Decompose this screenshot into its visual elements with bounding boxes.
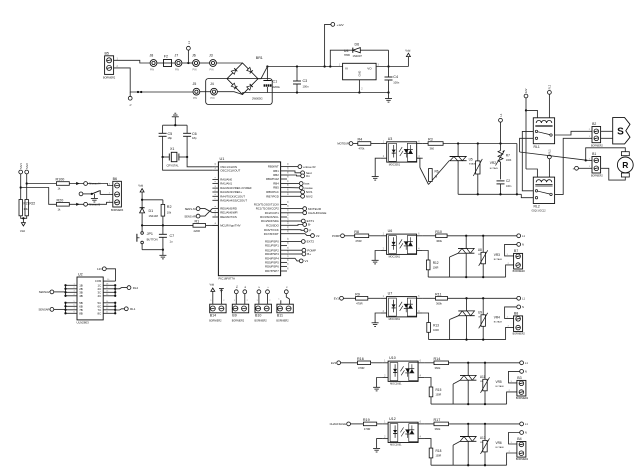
svg-text:RA1/AN1: RA1/AN1 xyxy=(220,182,232,186)
wire 12V to relay coils xyxy=(525,98,527,169)
terminal block B14 xyxy=(210,304,226,313)
net RL2 xyxy=(127,286,131,290)
bridge diode D-TL xyxy=(231,68,237,74)
svg-text:BORNIER2: BORNIER2 xyxy=(232,320,245,323)
svg-text:Vdd: Vdd xyxy=(210,282,215,286)
svg-text:MOC3061: MOC3061 xyxy=(389,318,401,321)
svg-text:N: N xyxy=(522,243,524,247)
wire J4 to bridge AC2 xyxy=(217,92,242,95)
wire U6 to R10 xyxy=(423,235,436,237)
connector J6 xyxy=(193,60,200,67)
wire N to B3 pin1 xyxy=(509,371,520,383)
net N B8 xyxy=(517,305,521,309)
wire bottom rail to B8 pin2 xyxy=(506,327,514,339)
svg-text:C6: C6 xyxy=(192,132,197,136)
net N B7 xyxy=(517,243,521,247)
svg-text:PIN: PIN xyxy=(175,69,179,72)
svg-text:BCTA08: BCTA08 xyxy=(496,446,505,449)
svg-text:PIC16F877A: PIC16F877A xyxy=(218,277,235,281)
varistor VR6 xyxy=(484,424,486,441)
resistor R11 xyxy=(436,297,448,301)
svg-text:Niveau B: Niveau B xyxy=(89,203,100,207)
svg-text:12V: 12V xyxy=(525,88,528,93)
svg-text:RL2: RL2 xyxy=(133,286,139,290)
capacitor C1 xyxy=(266,67,268,80)
net MOTEUR at U1 xyxy=(287,208,303,210)
svg-text:B11: B11 xyxy=(277,314,283,318)
svg-text:BORNIER3: BORNIER3 xyxy=(111,209,124,212)
svg-text:PIN: PIN xyxy=(211,97,215,100)
svg-text:N: N xyxy=(525,370,527,374)
crystal top rail xyxy=(163,124,188,126)
wire input to R8 xyxy=(344,235,354,237)
svg-text:CHAUFFAGE: CHAUFFAGE xyxy=(308,211,326,215)
resistor R2 xyxy=(161,204,165,216)
triac U8 xyxy=(465,236,467,249)
svg-text:R3: R3 xyxy=(428,138,433,142)
svg-text:L1: L1 xyxy=(522,297,525,301)
svg-text:NIV1: NIV1 xyxy=(19,163,23,169)
svg-text:BR1: BR1 xyxy=(256,56,263,60)
resistor R100 xyxy=(56,182,69,186)
svg-text:BORNIER2: BORNIER2 xyxy=(591,176,603,178)
capacitor C4 xyxy=(388,67,390,78)
svg-text:Niveau H: Niveau H xyxy=(89,182,100,186)
svg-text:U9: U9 xyxy=(478,310,482,314)
svg-text:B1: B1 xyxy=(592,152,596,156)
resistor R12 gate xyxy=(423,251,429,261)
wire bottom rail to RL2 contact xyxy=(521,194,533,197)
net S at B11 xyxy=(284,290,288,294)
wire NIV2 to R100 xyxy=(27,183,57,185)
svg-text:L1: L1 xyxy=(522,234,525,238)
svg-text:B14: B14 xyxy=(210,314,216,318)
svg-text:PIN: PIN xyxy=(210,69,214,72)
optocoupler U3 xyxy=(387,142,417,162)
wire switch to B6.2 xyxy=(100,193,113,195)
phase rail to L1 xyxy=(449,423,520,425)
svg-text:L1: L1 xyxy=(525,361,528,365)
wire U10 to R14 xyxy=(424,362,434,364)
net CHAUFFAGE input xyxy=(347,422,351,426)
phase rail to L1 xyxy=(449,362,520,364)
wire MOTEUR to R4 xyxy=(353,143,358,145)
optocoupler U12 xyxy=(388,422,418,442)
wire R8 to U6 xyxy=(369,235,381,237)
optocoupler U7 xyxy=(387,297,417,317)
svg-text:J3: J3 xyxy=(209,54,213,58)
ground at U6 pin2 xyxy=(375,251,381,261)
wire to level switch xyxy=(83,193,92,195)
svg-text:BORNIER2: BORNIER2 xyxy=(209,320,222,323)
svg-text:V2: V2 xyxy=(316,234,320,238)
svg-text:RL2: RL2 xyxy=(534,204,540,208)
varistor VR5 xyxy=(484,363,486,380)
svg-text:RD7/PSP7: RD7/PSP7 xyxy=(265,269,279,273)
svg-text:100n: 100n xyxy=(506,185,512,188)
motor R symbol xyxy=(621,152,629,156)
svg-text:C5: C5 xyxy=(168,132,173,136)
svg-text:RD1/PSP1: RD1/PSP1 xyxy=(265,244,279,248)
net POMP at U1 xyxy=(287,249,302,251)
svg-text:R2: R2 xyxy=(167,205,172,209)
terminal block B11 xyxy=(277,304,293,313)
net V2 xyxy=(287,234,311,236)
svg-text:VR4: VR4 xyxy=(494,315,500,319)
gate wire to triac xyxy=(430,458,432,465)
triac U5 xyxy=(457,144,459,157)
svg-text:J8: J8 xyxy=(150,54,154,58)
triac U11 xyxy=(467,363,469,376)
svg-text:U12: U12 xyxy=(389,417,396,421)
wire F2 to J7 xyxy=(172,62,176,64)
input bus bar SENSAV xyxy=(65,285,67,296)
net SENS AR xyxy=(196,214,200,218)
svg-text:BORNIER2: BORNIER2 xyxy=(513,333,526,336)
wire J8 to F2 xyxy=(157,62,164,64)
svg-text:R20: R20 xyxy=(57,198,64,202)
svg-text:100R: 100R xyxy=(433,329,439,332)
net SENS AV xyxy=(196,207,200,211)
svg-text:RD6/PSP6: RD6/PSP6 xyxy=(265,265,279,269)
svg-text:R: R xyxy=(622,160,628,170)
svg-text:Vdd: Vdd xyxy=(20,229,25,233)
net EXT2 xyxy=(287,241,301,243)
net V1 xyxy=(287,258,299,261)
svg-text:4C: 4C xyxy=(97,294,101,298)
bridge rectifier BR1 body xyxy=(206,79,273,105)
svg-text:J6: J6 xyxy=(192,54,196,58)
svg-text:R21R22: R21R22 xyxy=(24,202,36,206)
svg-text:F2: F2 xyxy=(164,55,168,59)
svg-text:1u: 1u xyxy=(170,239,173,243)
potentiometer R7 xyxy=(498,151,503,163)
resistor R16 xyxy=(358,361,371,365)
net N B4 xyxy=(520,431,524,435)
svg-text:C7: C7 xyxy=(170,234,175,238)
wire N to B4 pin1 xyxy=(509,433,520,445)
svg-text:EV2: EV2 xyxy=(331,361,337,365)
net SENSAR xyxy=(50,308,54,312)
svg-text:BORNIER2: BORNIER2 xyxy=(513,270,526,273)
channel bottom rail xyxy=(466,316,468,340)
svg-text:RL1: RL1 xyxy=(130,307,136,311)
svg-text:Vdd: Vdd xyxy=(405,49,410,53)
resistor R6 gate xyxy=(417,158,420,167)
svg-text:18p: 18p xyxy=(192,136,197,140)
svg-text:R4: R4 xyxy=(358,138,363,142)
svg-text:R11: R11 xyxy=(435,292,442,296)
svg-text:V1: V1 xyxy=(305,259,309,263)
svg-text:L1: L1 xyxy=(525,422,528,426)
wire to RL1 net xyxy=(115,309,124,310)
svg-text:PIN: PIN xyxy=(193,97,197,100)
svg-text:U6: U6 xyxy=(388,229,393,233)
svg-text:B10: B10 xyxy=(255,314,261,318)
svg-text:RL1: RL1 xyxy=(549,149,552,154)
svg-text:SENS AV: SENS AV xyxy=(185,207,197,211)
wire J5 to J4 xyxy=(200,91,211,93)
wire VO to Vdd xyxy=(376,66,408,68)
varistor VR2 xyxy=(477,144,479,161)
wire X1 to OSC1 xyxy=(187,157,212,167)
ground at B14 xyxy=(219,288,224,290)
svg-text:VR6: VR6 xyxy=(496,441,502,445)
connector J7 xyxy=(175,60,182,67)
wire NIV1 down xyxy=(20,174,22,200)
svg-text:470R: 470R xyxy=(356,302,362,306)
wire N to B7 pin1 xyxy=(505,244,517,256)
relay RL1 xyxy=(533,118,554,144)
node rail D1-R2 xyxy=(142,199,163,201)
capacitor C3 xyxy=(296,67,298,82)
svg-text:VI: VI xyxy=(345,66,348,70)
svg-text:1N4148: 1N4148 xyxy=(149,214,159,218)
svg-text:VR2: VR2 xyxy=(490,161,496,165)
svg-text:N: N xyxy=(522,305,524,309)
microcontroller U1 PIC16F877A xyxy=(218,162,280,276)
svg-text:360k: 360k xyxy=(436,239,442,243)
solenoid S symbol xyxy=(613,118,630,144)
net B10.1 xyxy=(257,290,261,294)
svg-text:B3: B3 xyxy=(517,376,521,380)
resistor R9 xyxy=(356,297,368,301)
net L1 B8 xyxy=(517,296,521,300)
ground at U3 pin2 xyxy=(375,158,381,176)
level switch xyxy=(92,191,100,194)
svg-text:U8: U8 xyxy=(478,248,482,252)
wire to RL2 net xyxy=(115,288,127,289)
resistor R19 xyxy=(363,422,376,426)
wire NIV1 to R20 row xyxy=(21,188,57,205)
capacitor C7 xyxy=(162,225,164,234)
svg-text:1N4007: 1N4007 xyxy=(353,54,363,58)
net EV1 input xyxy=(340,296,344,300)
net L1 above R7 xyxy=(499,118,503,122)
net CHAUFFAGE at U1 xyxy=(287,212,303,214)
svg-text:B2: B2 xyxy=(592,122,596,126)
net NIV2 input xyxy=(25,170,29,174)
net RL2 coil drive xyxy=(548,91,552,95)
net haut xyxy=(287,171,301,173)
svg-text:B-: B- xyxy=(308,223,311,227)
wire RL1 NC + diagonal to B1 xyxy=(520,138,534,152)
phase rail to L1 xyxy=(448,297,517,299)
ground at U10 pin2 xyxy=(377,378,383,388)
resistor R18 gate xyxy=(424,439,431,449)
wire R100 to Niveau H xyxy=(69,184,113,186)
wire B2 to S xyxy=(601,130,613,132)
diode D1 1N4148 xyxy=(140,207,145,209)
resistor R3 xyxy=(428,142,443,146)
svg-text:10k: 10k xyxy=(24,207,29,211)
svg-text:B7: B7 xyxy=(514,249,518,253)
svg-text:OSC2/CLKOUT: OSC2/CLKOUT xyxy=(220,168,240,172)
terminal block B10 xyxy=(255,304,271,313)
svg-text:B-: B- xyxy=(245,286,247,288)
svg-text:B6: B6 xyxy=(113,177,117,181)
net B9.2 xyxy=(243,290,247,294)
net RL1 coil drive xyxy=(548,155,552,159)
B11 pin1 stub xyxy=(280,300,282,304)
svg-text:S: S xyxy=(617,126,624,137)
relay RL2 xyxy=(533,177,554,203)
svg-text:BORNIER2: BORNIER2 xyxy=(516,397,529,400)
level switch input circle xyxy=(79,192,83,196)
svg-text:BORNIER2: BORNIER2 xyxy=(103,77,116,80)
svg-text:GND: GND xyxy=(358,71,362,77)
svg-text:SENSAV: SENSAV xyxy=(39,290,50,294)
wire R20 to Niveau B xyxy=(69,202,113,204)
net POMP input xyxy=(341,234,345,238)
svg-text:C4: C4 xyxy=(393,75,398,79)
svg-text:N: N xyxy=(525,431,527,435)
svg-text:470R: 470R xyxy=(358,366,364,370)
net MOTEUR input xyxy=(349,142,353,146)
wire input to R16 xyxy=(341,362,358,364)
resistor R14 xyxy=(434,361,449,365)
resistor R17 xyxy=(434,422,449,426)
svg-text:R10: R10 xyxy=(435,230,442,234)
wire SENS AR to RE0 (cross) xyxy=(200,208,212,216)
svg-text:360k: 360k xyxy=(435,427,441,431)
wire bottom rail to B3 pin2 xyxy=(507,392,517,404)
svg-text:MCLR/Vpp/THV: MCLR/Vpp/THV xyxy=(220,224,240,228)
svg-text:R13: R13 xyxy=(433,323,439,327)
wire U3 to R3 xyxy=(423,143,428,145)
svg-text:18p: 18p xyxy=(168,136,173,140)
wire bottom rail to B7 pin2 xyxy=(506,265,514,277)
svg-text:RB5: RB5 xyxy=(273,186,279,190)
svg-text:12V: 12V xyxy=(97,267,102,271)
svg-text:RL1: RL1 xyxy=(534,145,540,149)
output bus bar RL1 xyxy=(114,303,116,314)
resistor R8 xyxy=(355,234,369,238)
net 5 at B1 xyxy=(575,166,579,170)
wire bridge + to rail xyxy=(258,67,267,79)
svg-text:BORNIER2: BORNIER2 xyxy=(516,458,529,461)
connector J3 xyxy=(210,60,217,67)
output bus bar RL2 xyxy=(114,285,116,296)
wire J3 to bridge AC1 xyxy=(216,62,242,64)
svg-text:BORNIER2: BORNIER2 xyxy=(276,320,289,323)
svg-text:470R: 470R xyxy=(364,427,370,431)
net Niveau B xyxy=(84,202,88,206)
svg-text:VO: VO xyxy=(367,66,372,70)
svg-text:BORNIER2: BORNIER2 xyxy=(255,320,268,323)
svg-text:C3: C3 xyxy=(303,79,308,83)
connector J5 xyxy=(193,88,200,95)
net 12V relay xyxy=(524,94,528,98)
svg-text:R19: R19 xyxy=(363,418,370,422)
svg-text:C1: C1 xyxy=(273,80,278,84)
net bas xyxy=(287,183,299,185)
capacitor C5 xyxy=(162,125,164,133)
net L1 B3 xyxy=(520,361,524,365)
capacitor C6 xyxy=(186,125,188,133)
terminal block B9 xyxy=(232,304,248,313)
svg-text:RL2: RL2 xyxy=(549,84,552,89)
svg-text:MOC3061: MOC3061 xyxy=(390,444,402,447)
svg-text:+12V: +12V xyxy=(337,23,344,27)
svg-text:100R: 100R xyxy=(433,266,439,269)
svg-text:MOC3051: MOC3051 xyxy=(389,163,401,166)
svg-text:P: P xyxy=(309,229,311,233)
wire B1 to motor top xyxy=(586,148,626,161)
svg-text:R12: R12 xyxy=(433,261,439,265)
svg-text:100n: 100n xyxy=(393,80,399,84)
ground under C7 xyxy=(162,250,164,256)
svg-text:U1: U1 xyxy=(220,157,225,161)
svg-text:N: N xyxy=(129,104,133,106)
svg-text:MOC3061: MOC3061 xyxy=(390,383,402,386)
wire R4 to U3 xyxy=(371,143,381,145)
svg-text:4B: 4B xyxy=(79,294,83,298)
wire R1 to MCLR xyxy=(206,224,219,226)
channel bottom rail xyxy=(467,441,469,465)
svg-text:360k: 360k xyxy=(436,302,442,306)
rail loop right xyxy=(516,144,518,195)
wire motor bottom to B1.1 right side xyxy=(601,168,626,180)
varistor VR3 xyxy=(482,236,484,253)
net pause xyxy=(287,187,299,189)
bridge diamond xyxy=(227,63,258,95)
svg-text:JP1: JP1 xyxy=(147,232,153,236)
fuse F2 xyxy=(164,60,172,67)
svg-text:R6: R6 xyxy=(435,169,439,173)
svg-text:U5: U5 xyxy=(469,157,473,161)
svg-text:U3: U3 xyxy=(388,137,393,141)
wire RL1 NO to rails xyxy=(522,131,533,190)
svg-text:NIV2: NIV2 xyxy=(25,163,29,169)
svg-text:J5: J5 xyxy=(193,82,197,86)
crystal X1 xyxy=(171,152,177,161)
svg-text:RB3/PGM: RB3/PGM xyxy=(266,177,279,181)
terminal block B4 xyxy=(517,442,526,458)
wire B5.1 to J8 xyxy=(114,60,150,63)
svg-text:R15: R15 xyxy=(436,388,442,392)
resistor R13 gate xyxy=(423,313,429,323)
wire J7 to J6 with L1 tap xyxy=(182,62,193,64)
power flag Vdd down xyxy=(21,223,25,226)
svg-text:R100: R100 xyxy=(56,178,65,182)
svg-text:CHAUFFAGE: CHAUFFAGE xyxy=(330,422,347,426)
svg-text:VR3: VR3 xyxy=(494,253,500,257)
svg-text:360k: 360k xyxy=(435,366,441,370)
motor phase rail xyxy=(443,143,517,145)
resistor R15 gate xyxy=(424,378,431,388)
svg-text:R7: R7 xyxy=(506,153,510,157)
net EV2 input xyxy=(337,361,341,365)
svg-text:B+: B+ xyxy=(307,252,311,256)
svg-text:PIN: PIN xyxy=(193,69,197,72)
svg-text:7806: 7806 xyxy=(344,53,350,57)
net NIV1 xyxy=(287,191,301,193)
bridge diode D-BR xyxy=(247,84,253,90)
wire U12 to R17 xyxy=(424,423,434,425)
svg-text:J7: J7 xyxy=(175,54,179,58)
svg-text:U2: U2 xyxy=(78,272,83,276)
wire N to B8 pin1 xyxy=(505,307,517,319)
gate wire to triac xyxy=(427,270,429,277)
wire input to R9 xyxy=(343,297,355,299)
terminal block B8 xyxy=(514,316,523,332)
gate wire to triac xyxy=(430,397,432,404)
svg-text:BCTA08: BCTA08 xyxy=(494,258,503,261)
svg-text:D1: D1 xyxy=(149,209,154,213)
svg-text:470k: 470k xyxy=(359,147,365,151)
svg-text:MOTEUR: MOTEUR xyxy=(337,142,349,146)
